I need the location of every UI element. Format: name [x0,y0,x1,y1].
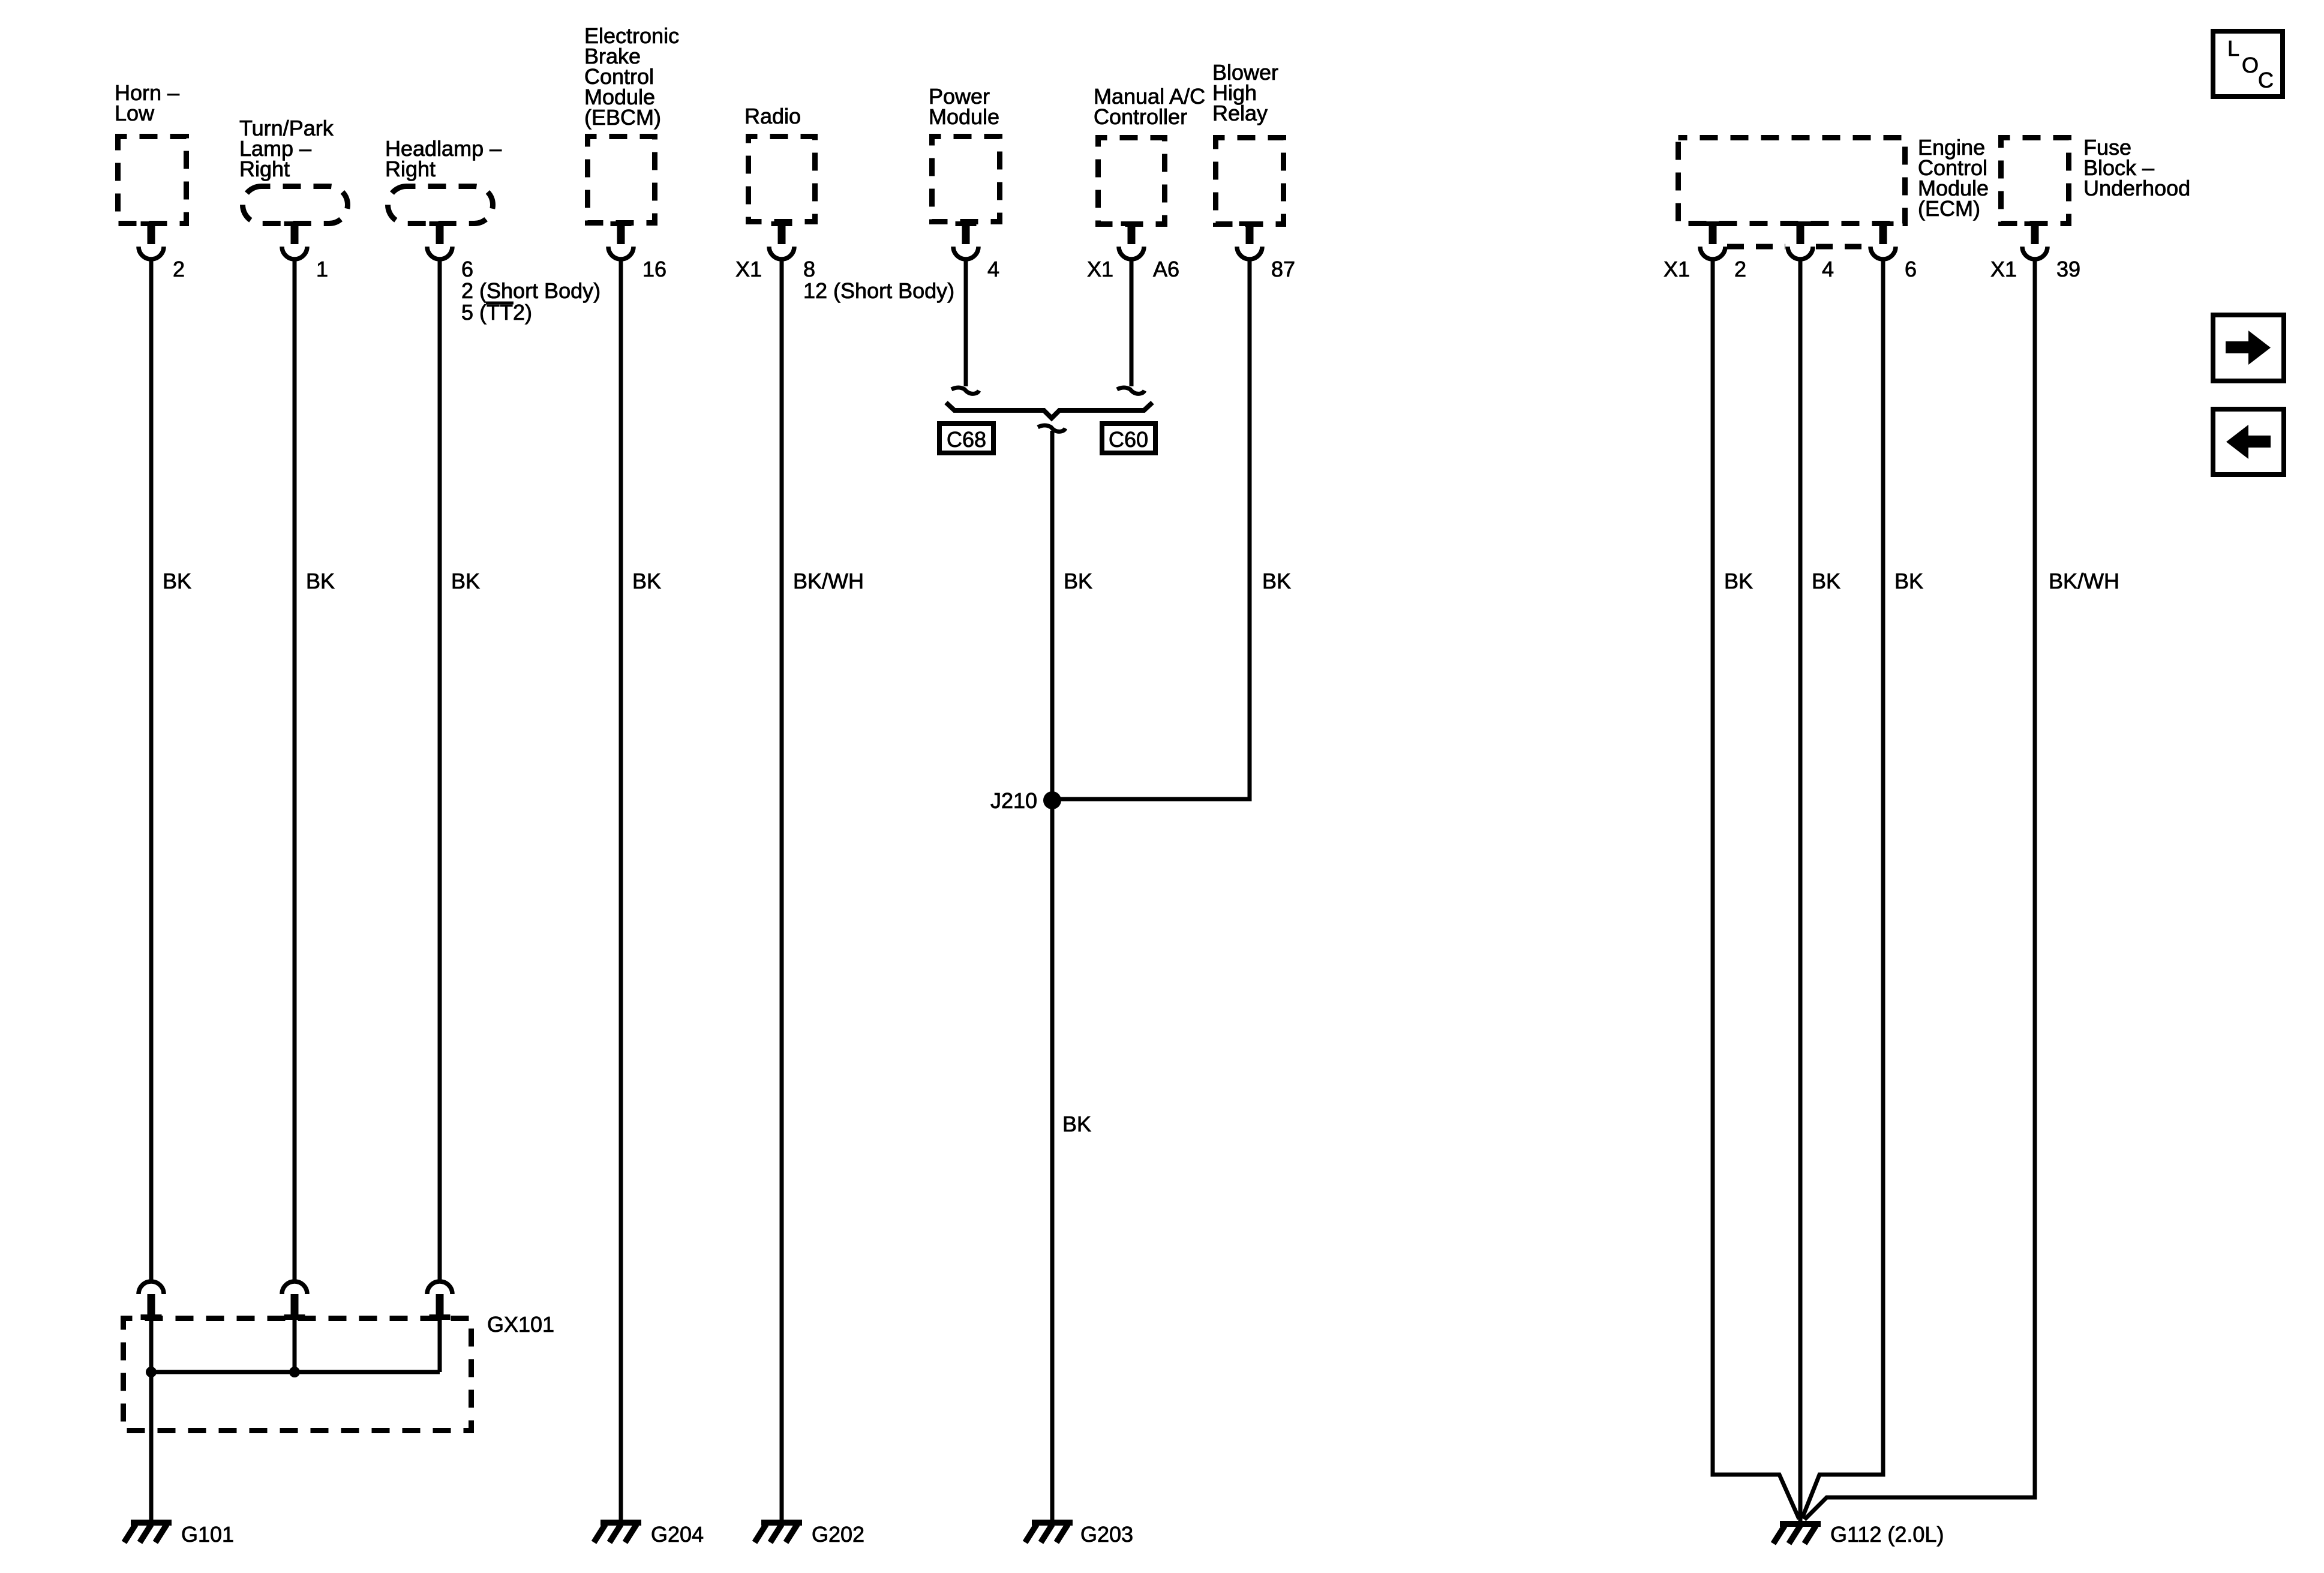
svg-text:C68: C68 [947,427,986,452]
connector horn into GX101 [139,1281,164,1320]
svg-text:BK/WH: BK/WH [2049,569,2119,593]
connector hook splice output [1038,425,1065,431]
svg-text:BK: BK [1262,569,1291,593]
connector A/C controller pin A6 [1119,221,1144,259]
connector power module pin 4 [953,221,978,259]
connector tag C68 [939,424,993,453]
svg-text:BK: BK [1064,569,1092,593]
GX101 bus wire [151,1370,440,1374]
junction dot at horn wire [146,1367,157,1377]
blower high relay component box [1216,138,1284,224]
svg-text:C60: C60 [1109,427,1148,452]
connector headlamp pin 6 [427,221,452,259]
svg-text:BK: BK [1724,569,1753,593]
wire ECM pin2 to G112 [1713,261,1799,1519]
ECM component box [1679,138,1905,224]
svg-text:Radio: Radio [744,104,801,128]
fuse block component box [2001,138,2069,224]
connector ECM pin 6 [1870,221,1896,259]
ECM X1 connector dashed strip [1727,244,1785,250]
svg-text:(EBCM): (EBCM) [584,105,661,130]
wire splice to J210 [1050,431,1055,799]
svg-text:BK: BK [451,569,480,593]
svg-text:J210: J210 [990,788,1037,813]
svg-text:X1: X1 [1087,257,1113,281]
svg-text:BK: BK [632,569,661,593]
svg-text:Right: Right [239,157,290,181]
horn component box [118,137,187,224]
svg-text:G203: G203 [1080,1522,1133,1547]
connector ECM pin 4 [1788,221,1813,259]
connector tag C60 [1102,424,1155,453]
wire horn inside GX101 to G101 [149,1320,154,1520]
radio component box [749,137,815,222]
svg-text:12 (Short Body): 12 (Short Body) [803,278,954,303]
wire EBCM to G204 [619,258,623,1520]
ground G112 (2.0L) [1773,1524,1821,1544]
wire headlamp inside GX101 [438,1320,442,1372]
svg-text:Right: Right [385,157,436,181]
svg-text:X1: X1 [1990,257,2017,281]
svg-text:16: 16 [642,257,666,281]
connector turn/park into GX101 [282,1281,307,1320]
svg-text:G112 (2.0L): G112 (2.0L) [1830,1522,1944,1547]
svg-text:L: L [2227,36,2239,61]
wire power module to splice [964,258,968,386]
svg-text:BK: BK [163,569,191,593]
svg-text:G202: G202 [812,1522,864,1547]
svg-text:BK: BK [1894,569,1923,593]
svg-text:X1: X1 [1664,257,1690,281]
node J210 [1043,791,1061,809]
connector relay pin 87 [1237,221,1262,259]
svg-text:A6: A6 [1153,257,1179,281]
svg-text:39: 39 [2056,257,2080,281]
power module component box [932,137,1000,222]
wire radio to G202 [780,258,784,1520]
headlamp component box [388,187,493,224]
connector hook power wire end [951,388,979,394]
svg-text:BK/WH: BK/WH [793,569,864,593]
GX101 splice pack box [124,1319,472,1431]
wire relay to J210 [1052,258,1250,799]
svg-text:Relay: Relay [1212,101,1268,125]
svg-text:87: 87 [1271,257,1295,281]
connector headlamp into GX101 [427,1281,452,1320]
svg-text:2: 2 [173,257,185,281]
connector radio pin 8 [769,221,794,259]
svg-text:(ECM): (ECM) [1918,196,1980,221]
wire ECM pin6 to G112 [1802,261,1883,1518]
wire turn/park to GX101 [293,258,297,1280]
connector EBCM pin 16 [608,221,633,259]
TT2 overline [486,302,514,305]
svg-text:BK: BK [1062,1112,1091,1136]
svg-text:GX101: GX101 [487,1312,554,1337]
svg-text:2 (Short Body): 2 (Short Body) [461,278,600,303]
wire ECM pin4 to G112 [1798,261,1803,1521]
ground G204 [594,1523,641,1542]
svg-text:Low: Low [115,101,155,125]
svg-text:C: C [2258,68,2274,92]
svg-text:8: 8 [803,257,815,281]
connector ECM pin 2 [1700,221,1725,259]
svg-text:6: 6 [1905,257,1917,281]
svg-text:2: 2 [1734,257,1746,281]
continue-left arrow box [2213,409,2284,475]
connector horn pin 2 [139,221,164,259]
svg-text:O: O [2242,53,2259,77]
wire headlamp to GX101 [438,258,442,1280]
ground G203 [1025,1523,1073,1542]
svg-text:BK: BK [1812,569,1840,593]
manual A/C controller component box [1098,138,1165,224]
connector fuse block pin 39 [2022,221,2047,259]
svg-text:BK: BK [306,569,335,593]
svg-text:6: 6 [461,257,473,281]
EBCM component box [588,137,655,223]
svg-text:4: 4 [987,257,999,281]
connector turn/park pin 1 [282,221,307,259]
junction dot at turn/park wire [289,1367,300,1377]
svg-text:G101: G101 [181,1522,234,1547]
svg-text:Controller: Controller [1094,104,1187,129]
svg-text:Module: Module [929,104,999,129]
continue-right arrow box [2213,315,2284,381]
wire turn/park inside GX101 [293,1320,297,1372]
LOC reference box [2213,31,2283,97]
svg-text:4: 4 [1822,257,1834,281]
ground G101 [124,1523,172,1542]
wire horn to GX101 [149,258,154,1280]
svg-text:X1: X1 [735,257,762,281]
turn/park lamp component box [243,187,348,224]
svg-text:1: 1 [316,257,328,281]
connector hook A/C wire end [1117,388,1145,394]
wire A/C controller to splice [1130,258,1134,386]
svg-text:G204: G204 [651,1522,704,1547]
wire fuse block to G112 [1804,261,2035,1520]
ground G202 [755,1523,802,1542]
splice brace [946,403,1152,418]
svg-text:Underhood: Underhood [2083,176,2190,200]
wire J210 to G203 [1050,800,1055,1520]
